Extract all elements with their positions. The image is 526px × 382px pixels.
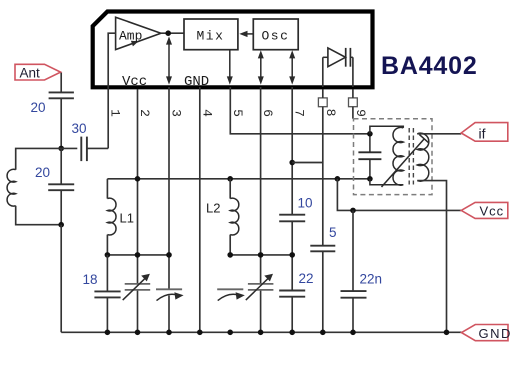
node if flag bbox=[461, 123, 508, 142]
svg-text:22: 22 bbox=[299, 271, 314, 286]
wire IF secondary bottom to ground bbox=[417, 181, 446, 333]
capacitor 18 bbox=[94, 255, 120, 332]
wire pin 8 leg bbox=[322, 107, 324, 246]
pin 8 terminal square bbox=[318, 98, 327, 107]
inductor L2 bbox=[206, 179, 239, 255]
node dots L1 rail bbox=[105, 252, 111, 258]
node tank bottom junction bbox=[58, 222, 64, 228]
wire pin 7 vertical bbox=[291, 87, 293, 215]
variable capacitor VC1 bbox=[123, 274, 151, 300]
wire L2 section rail bbox=[230, 254, 292, 256]
node GND flag bbox=[462, 325, 512, 342]
svg-text:1: 1 bbox=[108, 109, 123, 117]
wire pin 9 to IF can bbox=[352, 107, 354, 119]
oscillator Osc bbox=[253, 19, 298, 50]
svg-text:GND: GND bbox=[479, 326, 512, 341]
node dots ground rail bbox=[105, 330, 111, 336]
IF transformer core bbox=[409, 128, 413, 185]
node rail pin2 bbox=[135, 176, 141, 182]
wire pin 1 to C30 bbox=[107, 87, 109, 148]
node Ant flag bbox=[15, 64, 61, 80]
wire pin 6 vertical bbox=[260, 87, 262, 284]
svg-text:Vcc: Vcc bbox=[122, 74, 147, 90]
svg-text:2: 2 bbox=[137, 109, 152, 117]
wire diode anode to pin 8 bbox=[322, 57, 324, 87]
svg-text:20: 20 bbox=[35, 165, 50, 180]
svg-text:4: 4 bbox=[200, 109, 215, 117]
arrow pin 3 to amp output bidirectional bbox=[166, 36, 172, 84]
IF transformer dashed enclosure T1 bbox=[354, 119, 433, 195]
svg-text:7: 7 bbox=[292, 109, 307, 117]
wire L1 section rail bbox=[107, 254, 169, 256]
varicap detector diode D1 bbox=[323, 48, 353, 67]
svg-text:Mix: Mix bbox=[197, 29, 225, 44]
wire IF secondary to if flag bbox=[417, 133, 461, 135]
node rail vcc riser bbox=[335, 176, 341, 182]
trimmer capacitor CT1 bbox=[156, 289, 184, 300]
svg-text:5: 5 bbox=[230, 109, 245, 117]
wire Vcc feed horizontal bbox=[353, 209, 461, 211]
svg-text:30: 30 bbox=[72, 121, 87, 136]
node junction left bbox=[58, 146, 64, 152]
pin 9 terminal square bbox=[349, 98, 358, 107]
svg-text:L2: L2 bbox=[206, 201, 220, 216]
node IF cap top bbox=[367, 131, 373, 137]
trimmer capacitor CT2 bbox=[217, 289, 245, 300]
svg-text:8: 8 bbox=[323, 109, 338, 117]
wire C20a to node bbox=[60, 98, 62, 148]
capacitor 22 bbox=[279, 291, 305, 297]
capacitor 10 bbox=[279, 215, 305, 222]
svg-text:9: 9 bbox=[353, 109, 368, 117]
svg-text:3: 3 bbox=[169, 109, 184, 117]
wire pin8 stub bbox=[322, 89, 324, 98]
node IF cap bottom bbox=[367, 176, 373, 182]
wire diode cathode to pin 9 bbox=[352, 57, 354, 87]
svg-text:Amp: Amp bbox=[119, 29, 142, 44]
wire pin 7 to pin 8 jog bbox=[292, 162, 323, 164]
arrow Mix output to pin 5 bbox=[227, 50, 233, 85]
IF primary winding bbox=[370, 126, 403, 185]
arrow Osc to pin 7 bidirectional bbox=[289, 50, 295, 84]
svg-text:Vcc: Vcc bbox=[480, 204, 505, 219]
svg-text:5: 5 bbox=[329, 225, 337, 240]
wire pin 2 vertical bbox=[137, 89, 139, 284]
wire pin 5 to IF can bbox=[230, 87, 370, 134]
op-amp U1a Amp bbox=[116, 17, 161, 49]
svg-text:L1: L1 bbox=[120, 211, 134, 226]
svg-text:GND: GND bbox=[184, 74, 209, 90]
wire Osc to Mix arrow bbox=[239, 31, 253, 37]
mixer Mix bbox=[184, 19, 238, 50]
IF secondary winding bbox=[417, 133, 429, 181]
svg-text:20: 20 bbox=[31, 100, 46, 115]
wire amp output to Mix bbox=[161, 32, 184, 34]
svg-text:10: 10 bbox=[298, 196, 313, 211]
wire tank to ground rail bbox=[60, 225, 62, 333]
variable capacitor VC2 bbox=[246, 274, 274, 300]
node dots L2 rail bbox=[227, 252, 233, 258]
svg-text:Osc: Osc bbox=[262, 29, 290, 44]
svg-text:22n: 22n bbox=[360, 272, 383, 287]
IC BA4402 outline U1 bbox=[93, 12, 373, 88]
node pin 7 junction bbox=[289, 160, 295, 166]
svg-text:if: if bbox=[479, 126, 486, 142]
arrow Osc to pin 6 bidirectional bbox=[258, 50, 264, 84]
node Vcc flag bbox=[461, 202, 508, 218]
capacitor 30 (series to pin 1) bbox=[61, 137, 108, 162]
wire amp input to pin 1 bbox=[108, 33, 115, 87]
ground rail bbox=[61, 331, 461, 333]
capacitor 22n bbox=[341, 210, 367, 332]
capacitor 20 (antenna series) bbox=[49, 92, 74, 98]
wire pin 4 vertical bbox=[199, 87, 201, 332]
capacitor inside IF can bbox=[358, 134, 381, 179]
svg-text:Ant: Ant bbox=[20, 66, 41, 81]
capacitor 5 bbox=[310, 246, 335, 252]
svg-text:6: 6 bbox=[260, 109, 275, 117]
wire Vcc riser bbox=[337, 179, 353, 211]
wire Vcc rail horizontal bbox=[107, 178, 370, 180]
inductor antenna coil bbox=[7, 148, 61, 224]
node rail L2 bbox=[227, 176, 233, 182]
wire Ant to C20a bbox=[60, 73, 62, 93]
svg-text:BA4402: BA4402 bbox=[381, 52, 478, 80]
capacitor 20 (tank) bbox=[48, 148, 74, 224]
tuning arrow through transformer bbox=[382, 135, 430, 187]
node Vcc junction bbox=[350, 208, 356, 214]
wire pin 3 vertical bbox=[168, 87, 170, 289]
inductor L1 bbox=[107, 179, 134, 255]
node amp output junction bbox=[165, 30, 171, 36]
svg-text:18: 18 bbox=[83, 272, 98, 287]
wire pin9 stub bbox=[352, 89, 354, 98]
